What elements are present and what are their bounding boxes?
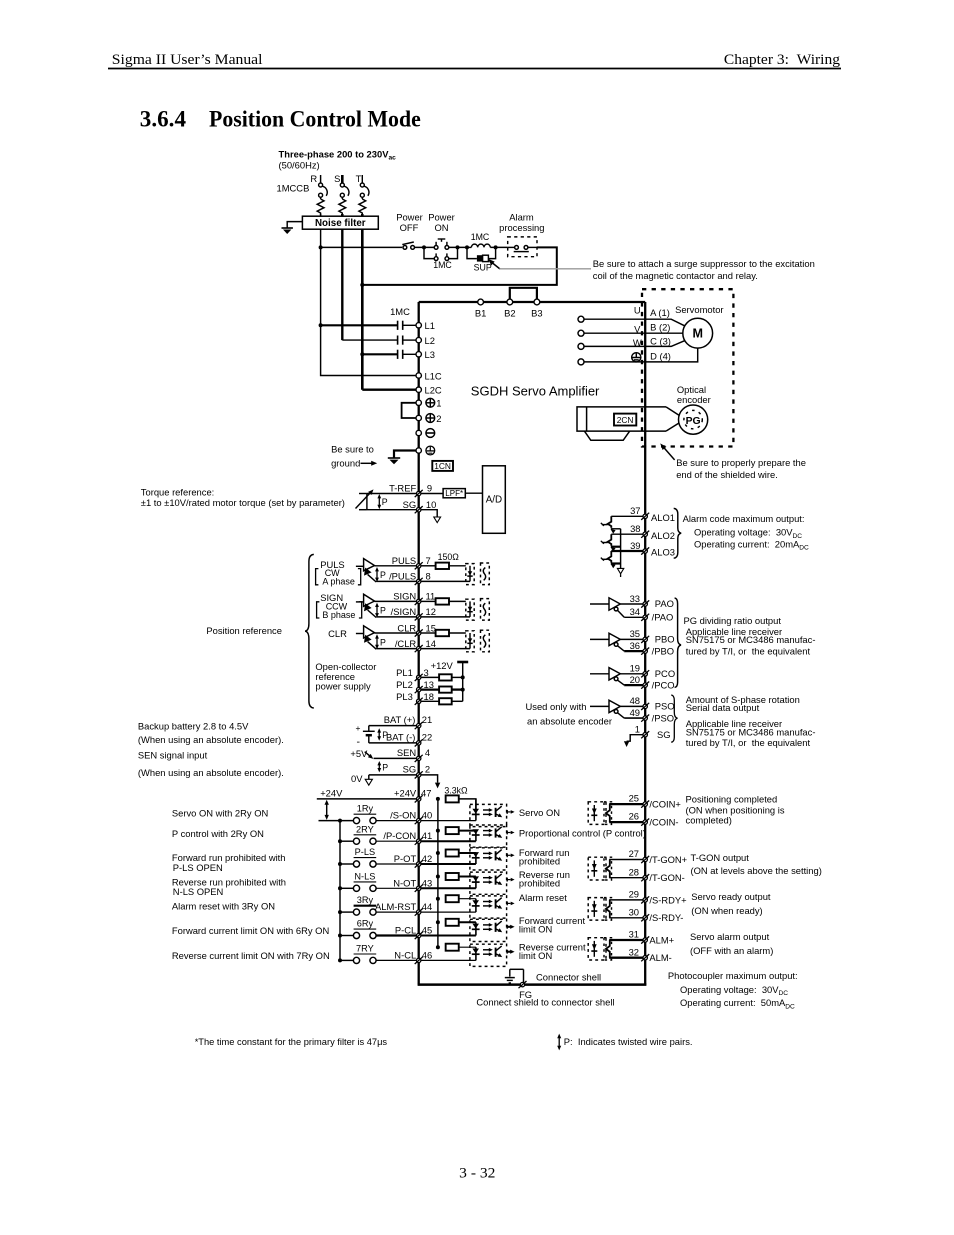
- terminal L1C: [416, 373, 421, 378]
- wire ALO emitter rail: [620, 529, 622, 569]
- breaker pole T of 1MCCB: [359, 175, 369, 216]
- wire SG2 internal ground: [421, 775, 438, 783]
- open collector transistor ALO3: [601, 551, 621, 568]
- terminal plus-1: [416, 398, 442, 409]
- photocoupler output /COIN+ /COIN-: [588, 802, 643, 825]
- wire phase R vertical: [320, 229, 322, 325]
- wire +24V row: [317, 798, 417, 800]
- wire L2 row: [342, 339, 397, 341]
- callout text surge suppressor: [593, 258, 815, 281]
- wire L2C row from T: [362, 389, 416, 391]
- description text ('Forward run', 856.0): [519, 847, 570, 867]
- svg-text:limit ON: limit ON: [519, 950, 552, 961]
- svg-text:T-GON output: T-GON output: [691, 852, 750, 863]
- node control return on T: [360, 283, 364, 287]
- connector label 2CN: [614, 414, 636, 426]
- resistor PL2: [439, 687, 452, 693]
- svg-text:A (1): A (1): [650, 307, 670, 318]
- pin 42 P-OT: [415, 860, 423, 867]
- pin 14 /CLR: [415, 645, 423, 652]
- description text ('Forward current', 924.0): [519, 915, 586, 935]
- svg-text:power supply: power supply: [315, 681, 371, 692]
- svg-text:/PBO: /PBO: [652, 645, 674, 656]
- svg-text:Used only with: Used only with: [526, 701, 587, 712]
- surge suppressor SUP branch: [467, 247, 496, 261]
- wire PULS row: [375, 565, 417, 567]
- svg-text:7RY: 7RY: [356, 944, 374, 954]
- svg-text:*The time constant for the pri: *The time constant for the primary filte…: [195, 1037, 388, 1047]
- labels N-CL pin 46: [394, 949, 432, 960]
- svg-text:an absolute encoder: an absolute encoder: [527, 716, 612, 727]
- svg-text:/T-GON-: /T-GON-: [649, 872, 684, 883]
- line driver output PAO: [590, 598, 624, 618]
- node rail /P-CON: [338, 839, 342, 843]
- twisted pair marker P torque: [377, 494, 387, 509]
- svg-text:Operating current: 20mADC: Operating current: 20mADC: [694, 538, 809, 551]
- svg-text:P-LS OPEN: P-LS OPEN: [173, 862, 223, 873]
- relay common rail: [339, 821, 341, 961]
- A/D converter box: [483, 466, 506, 534]
- svg-text:SIGN: SIGN: [393, 591, 416, 602]
- wire SG10: [367, 509, 417, 511]
- svg-text:L1C: L1C: [425, 370, 442, 381]
- wire pin row internal y=888.3: [421, 887, 476, 889]
- svg-text:SG: SG: [657, 729, 671, 740]
- resistor 3.3k at y=876.5: [446, 873, 459, 880]
- svg-text:8: 8: [426, 571, 431, 582]
- jumper B2-B3: [510, 288, 537, 299]
- node L1 tap on R: [319, 323, 323, 327]
- pin 38 ALO2: [641, 531, 649, 538]
- pin 12 /SIGN: [415, 613, 423, 620]
- twisted pair marker P battery: [377, 728, 388, 741]
- contact 1MC pole L3: [397, 350, 399, 359]
- footnote twisted pairs: [557, 1034, 692, 1051]
- wire BAT- row: [369, 742, 417, 744]
- node rail feed y=876.5: [436, 875, 440, 879]
- svg-text:Be sure to: Be sure to: [331, 444, 374, 455]
- svg-text:Sigma II User’s Manual: Sigma II User’s Manual: [112, 52, 263, 68]
- description /S-RDY+: [691, 891, 771, 916]
- terminal B3: [534, 299, 540, 305]
- wire /P-CON to pin: [376, 840, 416, 842]
- ground symbol at noise filter: [282, 228, 293, 234]
- svg-text:40: 40: [422, 810, 432, 821]
- svg-text:1MC: 1MC: [471, 232, 490, 242]
- svg-text:44: 44: [422, 901, 432, 912]
- line driver PULS: [356, 559, 376, 582]
- photocoupler output /T-GON+ /T-GON-: [588, 857, 643, 880]
- pin 4 SEN: [415, 755, 423, 762]
- wire PL1 row: [421, 676, 439, 678]
- svg-text:+24V: +24V: [394, 787, 417, 798]
- svg-text:Be sure to properly prepare th: Be sure to properly prepare the: [676, 457, 806, 468]
- wire PSO row: [620, 705, 643, 707]
- terminal L3: [416, 352, 421, 357]
- svg-text:OFF: OFF: [400, 222, 419, 233]
- svg-text:1CN: 1CN: [434, 461, 451, 471]
- svg-text:Alarm reset with 3Ry ON: Alarm reset with 3Ry ON: [172, 901, 275, 912]
- wire earth lead: [394, 451, 416, 459]
- switch Power ON pushbutton: [434, 239, 449, 249]
- optocoupler input at pin row y=960.4: [470, 944, 515, 966]
- resistor 150 ohm CLR: [436, 630, 449, 636]
- ground 0V open triangle: [365, 775, 372, 785]
- wire pin row internal y=960.4: [421, 959, 476, 961]
- svg-text:/PAO: /PAO: [652, 612, 674, 623]
- signal ground arrow SG1: [624, 741, 629, 747]
- label open collector power supply: [315, 661, 376, 692]
- labels /COIN+ /COIN-: [629, 793, 682, 828]
- svg-text:SG: SG: [403, 764, 417, 775]
- bracket alarm code outputs: [674, 508, 682, 558]
- svg-text:S: S: [334, 173, 340, 184]
- optocoupler input at pin row y=912.1: [470, 896, 515, 918]
- svg-text:15: 15: [426, 622, 436, 633]
- svg-text:prohibited: prohibited: [519, 856, 560, 867]
- svg-text:+12V: +12V: [431, 660, 454, 671]
- wire /PAO row: [624, 616, 643, 618]
- svg-text:10: 10: [426, 499, 436, 510]
- svg-text:32: 32: [629, 946, 639, 957]
- svg-text:Alarm: Alarm: [509, 211, 534, 222]
- pin 25 /COIN+: [641, 801, 649, 808]
- svg-text:41: 41: [422, 830, 432, 841]
- svg-text:PL2: PL2: [396, 679, 413, 690]
- pin 10 SG: [415, 506, 423, 513]
- svg-text:/PULS: /PULS: [389, 571, 416, 582]
- pin 36 /PBO: [641, 648, 649, 655]
- wire /S-ON to pin: [376, 820, 416, 822]
- low pass filter LPF box: [443, 489, 465, 498]
- label torque reference: [141, 487, 345, 508]
- description /T-GON+: [691, 852, 822, 876]
- wire motor lead B: [584, 332, 683, 334]
- twisted pair marker P PULS: [375, 567, 386, 582]
- labels ALM-RST pin 44: [375, 901, 432, 912]
- labels /P-CON pin 41: [383, 830, 432, 841]
- svg-text:+24V: +24V: [320, 787, 343, 798]
- svg-text:Operating current: 50mADC: Operating current: 50mADC: [680, 997, 795, 1010]
- wire control line to Power OFF: [321, 246, 403, 248]
- svg-text:CLR: CLR: [328, 628, 347, 639]
- wire PL3 to rail: [452, 700, 463, 702]
- svg-text:34: 34: [630, 606, 640, 617]
- pin 13 PL2: [415, 686, 423, 693]
- labels ALO3: [630, 540, 675, 558]
- labels /S-RDY+ /S-RDY-: [629, 889, 688, 924]
- relay contact 6Ry: [340, 919, 376, 939]
- wire Power OFF to ON: [415, 246, 435, 248]
- pin 22 BAT-: [415, 739, 423, 746]
- wire T-REF: [367, 493, 417, 495]
- signal ground arrow under SG10: [434, 517, 441, 523]
- wire resistor to LED y=876.5: [459, 876, 476, 878]
- svg-text:Connect shield to connector sh: Connect shield to connector shell: [476, 996, 614, 1007]
- svg-text:L2C: L2C: [425, 385, 442, 396]
- svg-text:Serial data output: Serial data output: [686, 702, 760, 713]
- optocoupler input at pin row y=841.2: [470, 825, 515, 847]
- wire SG1 row: [627, 735, 643, 742]
- label backup battery: [138, 720, 284, 745]
- earth symbol on lead D: [632, 353, 641, 362]
- svg-text:48: 48: [630, 695, 640, 706]
- terminal plus-2: [416, 413, 442, 424]
- pin 2 SG: [415, 771, 423, 778]
- wire SIGN row: [375, 600, 417, 602]
- labels PL2: [396, 679, 434, 690]
- svg-text:Position reference: Position reference: [206, 625, 282, 636]
- svg-text:12: 12: [426, 606, 436, 617]
- label Power OFF: [396, 212, 423, 234]
- pin 44 ALM-RST: [415, 909, 423, 916]
- svg-text:BAT (+): BAT (+): [384, 714, 416, 725]
- pin 11 SIGN: [415, 598, 423, 605]
- node before Power ON: [422, 245, 426, 249]
- wire phase T vertical: [361, 229, 364, 390]
- terminal protective earth: [416, 446, 435, 455]
- svg-text:P: P: [380, 606, 386, 616]
- label SIGN CCW B-phase: [317, 592, 362, 620]
- svg-text:ON: ON: [434, 222, 448, 233]
- svg-text:SGDH Servo Amplifier: SGDH Servo Amplifier: [471, 384, 600, 399]
- svg-text:Power: Power: [396, 212, 423, 223]
- svg-text:46: 46: [422, 949, 432, 960]
- pin 37 ALO1: [641, 513, 649, 520]
- pin 21 BAT+: [415, 722, 423, 729]
- svg-text:N-LS: N-LS: [354, 871, 375, 881]
- svg-text:CLR: CLR: [397, 622, 416, 633]
- contact 1MC pole L2: [397, 336, 399, 345]
- svg-text:/SIGN: /SIGN: [391, 606, 417, 617]
- pin 41 /P-CON: [415, 838, 423, 845]
- label SEN signal input: [138, 749, 284, 778]
- labels SIGN pins: [391, 591, 436, 618]
- wire motor lead D: [584, 348, 698, 362]
- svg-text:43: 43: [422, 877, 432, 888]
- resistor PL3: [439, 698, 452, 704]
- bracket PG dividing outputs: [675, 598, 681, 687]
- optocoupler input SIGN: [466, 599, 490, 621]
- svg-text:42: 42: [422, 853, 432, 864]
- labels CLR pins: [395, 622, 436, 649]
- label PULS CW A-phase: [316, 559, 361, 587]
- svg-text:tured by T/I, or the equivale: tured by T/I, or the equivalent: [686, 737, 811, 748]
- svg-text:B1: B1: [475, 308, 486, 319]
- svg-text:3.3kΩ: 3.3kΩ: [444, 786, 468, 796]
- wire PULS internal: [421, 565, 436, 567]
- wire N-CL to pin: [376, 959, 416, 961]
- node L3 tap on T: [360, 352, 364, 356]
- pin 1 SG: [641, 731, 649, 738]
- svg-text:-: -: [356, 736, 360, 748]
- description text ('Proportional control (P control)', 836.4): [519, 827, 646, 838]
- label Alarm processing: [499, 211, 544, 233]
- pin 7 PULS: [415, 562, 423, 569]
- svg-text:150Ω: 150Ω: [438, 552, 460, 562]
- svg-text:B3: B3: [531, 308, 542, 319]
- labels SG1: [635, 724, 671, 740]
- svg-text:ALO3: ALO3: [651, 547, 675, 558]
- svg-text:encoder: encoder: [677, 394, 711, 405]
- svg-text:processing: processing: [499, 222, 544, 233]
- wire /PULS row: [376, 580, 416, 582]
- labels +24V pin47: [394, 787, 431, 798]
- svg-text:2: 2: [425, 764, 430, 775]
- wire PL2 row: [421, 688, 439, 690]
- pin 43 N-OT: [415, 885, 423, 892]
- labels ALO2: [630, 523, 675, 541]
- optocoupler input at pin row y=935.5: [470, 919, 515, 941]
- pin 46 N-CL: [415, 957, 423, 964]
- relay contact N-LS: [340, 871, 376, 891]
- svg-text:Positioning completed: Positioning completed: [686, 793, 778, 804]
- coil 1MC: [467, 244, 508, 247]
- wire motor lead A: [584, 319, 685, 326]
- svg-text:P-CL: P-CL: [395, 925, 416, 936]
- resistor 3.3k at y=830.6: [446, 827, 459, 834]
- resistor 3.3k at y=922.3: [446, 919, 459, 926]
- wire /PULS internal: [421, 580, 470, 582]
- svg-text:7: 7: [426, 555, 431, 566]
- wire /SIGN internal: [421, 616, 470, 618]
- svg-text:Servo ready output: Servo ready output: [691, 891, 771, 902]
- labels ALM+ ALM-: [629, 929, 675, 964]
- svg-text:+: +: [356, 723, 361, 733]
- svg-text:35: 35: [630, 628, 640, 639]
- description text ('Servo ON', 816.0): [519, 807, 560, 818]
- resistor 3.3k servo-on: [446, 795, 459, 802]
- svg-text:Forward current limit ON with: Forward current limit ON with 6Ry ON: [172, 925, 329, 936]
- pin 32 ALM-: [641, 954, 649, 961]
- wire CLR internal: [421, 632, 436, 634]
- node after 1MC coil: [494, 245, 498, 249]
- pin 45 P-CL: [415, 932, 423, 939]
- svg-text:U: U: [634, 305, 641, 316]
- noise filter box: [302, 216, 378, 229]
- optocoupler input at pin row y=888.3: [470, 872, 515, 894]
- signal ground arrow ALO: [617, 568, 623, 577]
- svg-text:/S-RDY+: /S-RDY+: [649, 894, 687, 905]
- pin 9 T-REF: [415, 490, 423, 497]
- svg-text:Power: Power: [428, 212, 455, 223]
- external label N-OT: [172, 876, 286, 897]
- pin 28 /T-GON-: [641, 874, 649, 881]
- resistor 3.3k at y=853.0: [446, 850, 459, 857]
- node rail PL2: [461, 688, 465, 692]
- svg-text:ALM-RST: ALM-RST: [375, 901, 416, 912]
- labels /S-ON pin 40: [390, 810, 432, 821]
- node rail ALM-RST: [338, 910, 342, 914]
- labels /T-GON+ /T-GON-: [629, 848, 688, 883]
- line driver output PSO: [590, 700, 624, 718]
- signal ground arrow SG2: [435, 783, 440, 789]
- node rail PL1: [461, 675, 465, 679]
- svg-text:1MCCB: 1MCCB: [277, 183, 310, 194]
- svg-text:B2: B2: [504, 308, 515, 319]
- wire ALO3 row: [611, 550, 643, 552]
- labels SEN: [397, 747, 430, 758]
- svg-text:P: Indicates twisted wire pai: P: Indicates twisted wire pairs.: [564, 1036, 693, 1047]
- labels B1 B2 B3: [475, 308, 543, 319]
- node rail N-CL: [338, 958, 342, 962]
- svg-text:PSO: PSO: [655, 701, 675, 712]
- wire PL3 row: [421, 700, 439, 702]
- servomotor M circle: [683, 318, 713, 348]
- svg-text:39: 39: [630, 540, 640, 551]
- line driver SIGN: [356, 594, 376, 617]
- svg-text:9: 9: [427, 483, 432, 494]
- svg-text:prohibited: prohibited: [519, 878, 560, 889]
- node rail N-OT: [338, 886, 342, 890]
- svg-text:/COIN-: /COIN-: [649, 817, 678, 828]
- contact 1MC holding parallel branch: [424, 247, 458, 260]
- svg-text:20: 20: [630, 674, 640, 685]
- node rail feed y=898.7: [436, 897, 440, 901]
- svg-text:1MC: 1MC: [390, 306, 410, 317]
- pin 31 ALM+: [641, 936, 649, 943]
- pin 34 /PAO: [641, 614, 649, 621]
- svg-text:PBO: PBO: [655, 634, 675, 645]
- svg-text:P: P: [382, 762, 388, 772]
- wire pin row internal y=841.2: [421, 840, 476, 842]
- svg-text:BAT (-): BAT (-): [386, 732, 415, 743]
- svg-text:LPF*: LPF*: [445, 489, 463, 498]
- labels BAT-: [386, 732, 432, 743]
- terminal B1: [478, 299, 484, 305]
- line driver CLR: [356, 626, 376, 649]
- svg-text:/COIN+: /COIN+: [649, 799, 681, 810]
- svg-text:Alarm code maximum output:: Alarm code maximum output:: [683, 513, 805, 524]
- terminal B2: [507, 299, 513, 305]
- wire PL2 to rail: [452, 688, 463, 690]
- wire resistor to LED y=830.6: [459, 830, 476, 832]
- svg-text:SN75175 or MC3486 manufac-: SN75175 or MC3486 manufac-: [686, 634, 816, 645]
- label +5V: [350, 748, 373, 759]
- svg-text:22: 22: [422, 732, 432, 743]
- wire resistor to LED y=947.2: [459, 946, 476, 948]
- labels P-CL pin 45: [395, 925, 432, 936]
- wire P-OT to pin: [376, 863, 416, 865]
- svg-text:±1 to ±10V/rated motor torque: ±1 to ±10V/rated motor torque (set by pa…: [141, 497, 345, 508]
- callout leader line gray: [499, 268, 591, 270]
- photocoupler output ALM+ ALM-: [588, 938, 643, 960]
- wire SG10 internal ground: [421, 510, 437, 517]
- contact 1MC pole L1: [397, 321, 399, 330]
- svg-text:Servo ON with 2Ry ON: Servo ON with 2Ry ON: [172, 808, 268, 819]
- wire /SIGN row: [376, 616, 416, 618]
- terminal L2C: [416, 387, 421, 392]
- wire +12V rail down: [462, 677, 464, 701]
- node before 1MC coil: [465, 245, 469, 249]
- wire LPF to AD: [465, 492, 482, 494]
- twisted pair marker P SIGN: [375, 603, 386, 618]
- brace position reference: [305, 554, 314, 708]
- svg-text:25: 25: [629, 793, 639, 804]
- svg-text:31: 31: [629, 929, 639, 940]
- labels SG2: [403, 764, 430, 775]
- svg-text:Be sure to attach a surge supp: Be sure to attach a surge suppressor to …: [593, 258, 815, 269]
- svg-text:2: 2: [436, 413, 441, 424]
- node after Power ON: [456, 245, 460, 249]
- wire /PCO row: [624, 684, 643, 686]
- svg-text:Operating voltage: 30VDC: Operating voltage: 30VDC: [680, 984, 788, 997]
- wire SIGN internal: [421, 600, 436, 602]
- svg-text:SEN signal input: SEN signal input: [138, 749, 208, 760]
- svg-text:C (3): C (3): [650, 335, 671, 346]
- svg-text:A phase: A phase: [322, 577, 355, 587]
- svg-text:D (4): D (4): [650, 351, 671, 362]
